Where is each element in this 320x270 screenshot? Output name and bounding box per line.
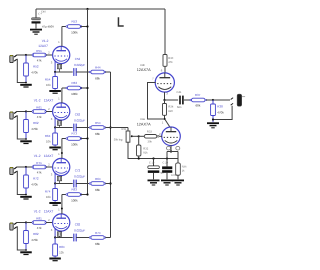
svg-text:R74: R74	[45, 189, 51, 193]
svg-text:C62: C62	[75, 113, 81, 117]
svg-text:10k: 10k	[46, 195, 51, 199]
svg-text:91k: 91k	[143, 152, 148, 155]
svg-text:R44: R44	[95, 66, 101, 70]
svg-text:100k: 100k	[71, 143, 78, 147]
svg-text:C41: C41	[177, 91, 182, 94]
svg-text:47μ 450V: 47μ 450V	[42, 24, 54, 28]
svg-text:470k: 470k	[31, 127, 38, 131]
svg-text:R84: R84	[59, 245, 65, 249]
svg-text:R71: R71	[36, 161, 42, 165]
svg-text:R73: R73	[72, 132, 78, 136]
svg-text:47k: 47k	[37, 226, 42, 230]
svg-text:0.022μF: 0.022μF	[74, 229, 85, 233]
svg-text:820: 820	[168, 110, 173, 113]
svg-text:V1-2: V1-2	[42, 39, 49, 43]
svg-text:R74: R74	[95, 231, 101, 235]
svg-text:R64: R64	[95, 177, 101, 181]
svg-text:V1-2: V1-2	[34, 98, 41, 102]
svg-text:R82: R82	[33, 232, 39, 236]
svg-text:47k: 47k	[37, 115, 42, 119]
svg-text:470k: 470k	[31, 183, 38, 187]
svg-text:10k: 10k	[46, 83, 51, 87]
svg-text:R54: R54	[45, 77, 51, 81]
svg-text:68k: 68k	[95, 77, 100, 81]
svg-text:R37: R37	[195, 93, 201, 97]
svg-text:C52: C52	[75, 57, 81, 61]
svg-text:C40: C40	[41, 11, 46, 14]
svg-text:100k: 100k	[71, 31, 78, 35]
svg-text:U4a: U4a	[140, 118, 145, 121]
svg-text:R30: R30	[168, 57, 173, 60]
svg-text:R53: R53	[72, 20, 78, 24]
svg-text:470k: 470k	[217, 111, 224, 115]
svg-text:R36: R36	[182, 165, 187, 168]
svg-text:R31: R31	[122, 128, 127, 131]
svg-text:47k: 47k	[168, 61, 173, 64]
svg-text:C 20: C 20	[163, 162, 169, 165]
svg-text:V1-2: V1-2	[34, 154, 41, 158]
svg-text:R81: R81	[36, 216, 42, 220]
svg-text:12AX7A: 12AX7A	[137, 68, 151, 72]
svg-text:470k: 470k	[31, 238, 38, 242]
svg-text:R62: R62	[33, 121, 39, 125]
svg-text:100k: 100k	[71, 199, 78, 203]
svg-text:12AX7A: 12AX7A	[137, 122, 151, 126]
svg-text:68k: 68k	[95, 242, 100, 246]
svg-text:12AX7: 12AX7	[44, 209, 54, 213]
svg-text:R72: R72	[33, 177, 39, 181]
svg-text:0.022μF: 0.022μF	[74, 175, 85, 179]
svg-text:R38: R38	[217, 105, 223, 109]
svg-text:50k log: 50k log	[114, 138, 123, 141]
svg-text:12AX7: 12AX7	[44, 98, 54, 102]
svg-text:12AX7: 12AX7	[44, 154, 54, 158]
svg-text:R34: R34	[168, 106, 173, 109]
svg-text:R32: R32	[143, 147, 148, 150]
svg-text:100k: 100k	[71, 92, 78, 96]
svg-text:0.022μF: 0.022μF	[74, 63, 85, 67]
svg-text:R83: R83	[72, 188, 78, 192]
svg-text:R63: R63	[72, 81, 78, 85]
svg-text:R61: R61	[36, 105, 42, 109]
svg-text:68k: 68k	[95, 188, 100, 192]
svg-text:470k: 470k	[31, 71, 38, 75]
svg-text:R51: R51	[36, 49, 42, 53]
svg-text:47k: 47k	[37, 58, 42, 62]
svg-text:47k: 47k	[37, 170, 42, 174]
svg-text:30k: 30k	[148, 140, 153, 143]
svg-text:68n: 68n	[177, 106, 182, 109]
svg-text:R52: R52	[33, 65, 39, 69]
svg-text:68k: 68k	[196, 104, 201, 108]
svg-text:V1-2: V1-2	[34, 209, 41, 213]
svg-text:C82: C82	[75, 223, 81, 227]
svg-text:0.022μF: 0.022μF	[74, 119, 85, 123]
svg-text:12k: 12k	[59, 251, 64, 255]
svg-text:68k: 68k	[95, 132, 100, 136]
svg-text:C72: C72	[75, 169, 81, 173]
svg-text:R33: R33	[147, 131, 152, 134]
svg-text:12AX7: 12AX7	[38, 44, 48, 48]
svg-text:U4b: U4b	[140, 64, 145, 67]
svg-text:10k: 10k	[46, 140, 51, 144]
svg-text:R54: R54	[95, 121, 101, 125]
svg-text:R64: R64	[45, 134, 51, 138]
svg-text:C 19: C 19	[149, 162, 155, 165]
